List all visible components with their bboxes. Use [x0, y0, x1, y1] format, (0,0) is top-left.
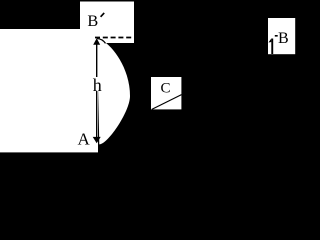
svg-text:C: C — [161, 81, 171, 97]
svg-text:B: B — [278, 30, 289, 47]
svg-text:B: B — [87, 11, 98, 30]
svg-text:A: A — [78, 130, 91, 149]
svg-text:h: h — [93, 75, 102, 95]
